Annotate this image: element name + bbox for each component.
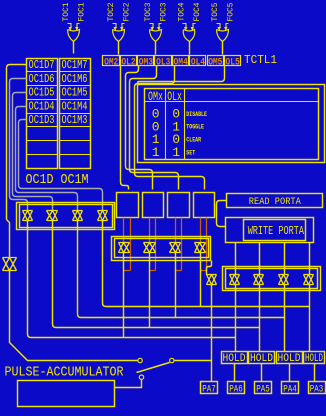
svg-text:TCTL1: TCTL1 (244, 53, 277, 67)
svg-text:PULSE-ACCUMULATOR: PULSE-ACCUMULATOR (5, 365, 124, 380)
svg-text:CLEAR: CLEAR (186, 137, 201, 144)
svg-text:OMx: OMx (148, 89, 163, 104)
svg-text:OL5: OL5 (226, 56, 240, 68)
svg-text:OC1M7: OC1M7 (62, 58, 88, 72)
svg-text:TOGGLE: TOGGLE (186, 124, 204, 131)
svg-text:OC1M3: OC1M3 (62, 113, 88, 127)
svg-text:WRITE PORTA: WRITE PORTA (248, 224, 305, 238)
svg-text:SET: SET (186, 149, 195, 156)
svg-text:TOC4: TOC4 (178, 2, 187, 21)
svg-text:PA5: PA5 (256, 384, 270, 396)
svg-text:FOC1: FOC1 (77, 2, 86, 21)
svg-text:DISABLE: DISABLE (186, 111, 207, 118)
svg-text:OM2: OM2 (104, 56, 118, 68)
svg-text:FOC5: FOC5 (226, 2, 235, 21)
svg-text:HOLD: HOLD (278, 353, 301, 365)
svg-text:FOC2: FOC2 (122, 2, 131, 21)
svg-text:OC1M6: OC1M6 (62, 72, 88, 86)
svg-text:OC1D7: OC1D7 (29, 58, 55, 72)
svg-text:OC1D3: OC1D3 (29, 113, 55, 127)
svg-text:OC1D4: OC1D4 (29, 99, 55, 113)
svg-text:OC1M4: OC1M4 (62, 99, 88, 113)
svg-text:PA7: PA7 (202, 384, 216, 396)
svg-text:TOC5: TOC5 (211, 2, 220, 21)
svg-text:TOC2: TOC2 (107, 2, 116, 21)
svg-text:PA6: PA6 (229, 384, 243, 396)
svg-text:PA3: PA3 (310, 384, 324, 396)
svg-text:OC1D6: OC1D6 (29, 72, 55, 86)
svg-text:HOLD: HOLD (250, 353, 273, 365)
svg-text:1: 1 (152, 145, 160, 160)
svg-text:OC1M5: OC1M5 (62, 86, 88, 100)
svg-text:FOC4: FOC4 (193, 2, 202, 21)
svg-text:OC1D5: OC1D5 (29, 86, 55, 100)
svg-text:OL3: OL3 (156, 56, 170, 68)
svg-text:READ PORTA: READ PORTA (249, 196, 302, 208)
svg-text:FOC3: FOC3 (159, 2, 168, 21)
svg-text:TOC1: TOC1 (62, 2, 71, 21)
svg-text:HOLD: HOLD (223, 353, 246, 365)
svg-text:OM3: OM3 (139, 56, 153, 68)
svg-text:PA4: PA4 (283, 384, 297, 396)
svg-text:HOLD: HOLD (305, 353, 323, 365)
svg-text:TOC3: TOC3 (144, 2, 153, 21)
svg-text:OLx: OLx (167, 89, 182, 104)
svg-text:OM5: OM5 (208, 56, 222, 68)
svg-text:OL4: OL4 (191, 56, 205, 68)
svg-text:OC1D OC1M: OC1D OC1M (26, 172, 89, 188)
svg-text:1: 1 (172, 145, 180, 160)
svg-text:OL2: OL2 (121, 56, 135, 68)
svg-text:OM4: OM4 (174, 56, 188, 68)
